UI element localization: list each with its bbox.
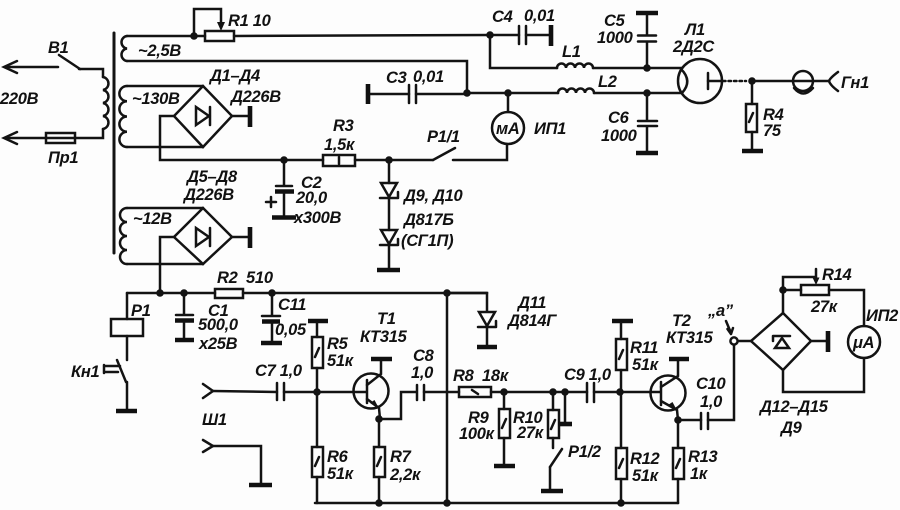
meter IP1 — [492, 93, 524, 144]
pushbutton Kn1 — [104, 360, 127, 410]
ground R9 — [494, 464, 515, 469]
wire winding130 top to bridge — [127, 85, 203, 88]
svg-text:1000: 1000 — [601, 127, 638, 145]
node junction feedback bottom — [443, 499, 451, 507]
node junction T1 emitter — [375, 415, 383, 423]
svg-text:Д817Б: Д817Б — [402, 211, 454, 229]
svg-text:0,01: 0,01 — [413, 68, 444, 86]
svg-text:Т1: Т1 — [377, 310, 396, 328]
resistor R11 — [616, 323, 627, 392]
capacitor C1 — [175, 293, 194, 338]
transformer primary winding — [103, 77, 108, 129]
svg-text:С11: С11 — [278, 296, 306, 314]
wire bridge3 top to R14 junction — [782, 290, 785, 313]
ground P1/2 — [541, 489, 563, 494]
node junction stub top — [561, 388, 569, 396]
svg-text:~12В: ~12В — [133, 210, 172, 228]
winding 12V — [120, 208, 127, 264]
node junction C6 top — [643, 89, 651, 97]
capacitor C7 — [277, 383, 284, 400]
svg-text:Д5–Д8: Д5–Д8 — [185, 168, 238, 186]
svg-text:R6: R6 — [327, 448, 349, 466]
svg-text:1к: 1к — [690, 465, 709, 483]
node junction C2 top — [280, 156, 288, 164]
wire R3 to P1/1 — [355, 159, 433, 162]
wire R8 to C9 — [491, 391, 587, 394]
wire winding12 top to bridge2 — [127, 207, 203, 210]
terminal bar T2 collector — [669, 357, 689, 362]
svg-text:R11: R11 — [630, 339, 658, 357]
ground C11 — [261, 341, 282, 346]
svg-text:2,2к: 2,2к — [389, 466, 422, 484]
zener D10 — [380, 199, 398, 268]
zener D9 — [380, 160, 398, 198]
diode bridge D12-D15 — [751, 313, 811, 370]
capacitor C9 — [587, 383, 594, 402]
ground C2 — [272, 215, 296, 220]
svg-text:Д12–Д15: Д12–Д15 — [758, 398, 829, 416]
svg-text:Д9, Д10: Д9, Д10 — [402, 187, 464, 205]
wire bridge2 left to bus293 — [160, 237, 174, 293]
svg-text:С6: С6 — [608, 109, 630, 127]
capacitor C3 terminal bar — [366, 84, 371, 104]
node junction L2 wire left — [463, 89, 471, 97]
svg-text:С3: С3 — [386, 69, 407, 87]
terminal bar R5 top — [308, 319, 328, 324]
node junction meter IP1 top — [504, 89, 512, 97]
wire C10 to node a — [708, 345, 734, 420]
svg-text:μА: μА — [852, 334, 874, 352]
inductor L1 — [557, 64, 593, 68]
wire node a to bridge3 — [738, 340, 751, 343]
svg-text:ИП1: ИП1 — [534, 120, 566, 138]
inductor L2 — [558, 89, 594, 94]
svg-text:С10: С10 — [696, 375, 726, 393]
svg-text:2Д2С: 2Д2С — [672, 38, 715, 56]
svg-text:27к: 27к — [810, 298, 839, 316]
svg-text:„а”: „а” — [707, 302, 734, 320]
terminal bar C6 bottom — [636, 151, 658, 156]
node junction R12 bottom — [617, 499, 625, 507]
wire bus to zener D11 — [447, 293, 487, 311]
node junction R9 top — [500, 388, 508, 396]
switch P1/1 blade — [433, 148, 455, 160]
svg-text:Д226В: Д226В — [229, 88, 281, 106]
node junction R1 left — [190, 32, 198, 40]
svg-text:Ш1: Ш1 — [202, 411, 227, 429]
node junction R14 left — [779, 286, 787, 294]
wire emitter to C10 — [678, 419, 701, 422]
terminal bar T1 collector — [371, 357, 392, 362]
transistor T1 — [354, 361, 389, 419]
svg-text:27к: 27к — [516, 424, 545, 442]
terminal bar bridge2 right — [232, 227, 250, 248]
wire bus293 left segment — [127, 292, 215, 295]
resistor R9 — [499, 392, 510, 464]
svg-text:51к: 51к — [632, 356, 660, 374]
svg-text:51к: 51к — [327, 352, 355, 370]
wire C7 to base junction — [284, 391, 317, 394]
svg-text:х25В: х25В — [198, 335, 238, 353]
connector Sh1 lower fork — [203, 440, 213, 452]
ground Sh1 — [249, 483, 272, 488]
svg-text:ИП2: ИП2 — [866, 307, 898, 325]
zener D11 — [478, 312, 496, 345]
resistor R8 — [459, 387, 491, 397]
svg-text:51к: 51к — [327, 465, 355, 483]
resistor R13 — [673, 420, 684, 503]
svg-text:C9 1,0: C9 1,0 — [564, 366, 612, 384]
node a circle — [730, 337, 737, 344]
resistor R5 — [312, 323, 323, 392]
svg-text:Л1: Л1 — [684, 21, 705, 39]
terminal stub near C9 — [564, 392, 567, 422]
svg-text:C7 1,0: C7 1,0 — [255, 362, 303, 380]
svg-text:R1 10: R1 10 — [228, 12, 272, 30]
resistor R10 — [548, 392, 559, 448]
wire winding12 bottom to bridge2 — [127, 263, 203, 266]
svg-text:R12: R12 — [630, 450, 659, 468]
wire R14 to meter IP2 — [829, 290, 864, 326]
wire winding2.5 top to R1 — [127, 35, 205, 38]
svg-text:1000: 1000 — [597, 29, 634, 47]
node junction T1 base — [313, 388, 321, 396]
node junction C11 top — [268, 289, 276, 297]
wire winding2.5 bottom long — [127, 61, 467, 93]
node junction R4 top — [748, 77, 756, 85]
svg-text:R7: R7 — [390, 448, 412, 466]
node junction feedback vertical top — [443, 289, 451, 297]
wire switch to transformer primary — [79, 69, 103, 77]
ground D9 D10 — [377, 268, 400, 273]
wire R4 junction to jack — [752, 80, 829, 83]
wire bridge1 left to bus160 — [160, 116, 323, 160]
wire base junction to T2 — [620, 391, 660, 394]
wire R1 to C4 junction — [234, 35, 490, 36]
switch P1/2 — [550, 449, 562, 489]
terminal bar stub — [558, 422, 572, 427]
terminal bar bridge1 right — [232, 106, 250, 127]
resistor R14 rheostat — [783, 269, 829, 295]
svg-text:C8: C8 — [413, 347, 435, 365]
mains arrow top — [4, 61, 58, 73]
svg-text:L2: L2 — [598, 73, 617, 91]
svg-text:0,05: 0,05 — [275, 321, 307, 339]
connector Sh1 upper fork — [203, 384, 213, 398]
mains arrow bottom — [4, 132, 46, 144]
svg-text:Гн1: Гн1 — [841, 74, 869, 92]
svg-text:L1: L1 — [562, 43, 581, 61]
resistor R6 — [312, 392, 323, 503]
svg-text:х300В: х300В — [293, 209, 342, 227]
wire emitter to C8 — [379, 392, 416, 419]
jack Gn1 circle — [793, 71, 813, 94]
terminal bar bridge3 right — [811, 331, 828, 352]
svg-text:Пр1: Пр1 — [48, 149, 78, 167]
svg-text:Т2: Т2 — [672, 312, 691, 330]
svg-text:КТ315: КТ315 — [666, 329, 714, 347]
capacitor C2 — [266, 160, 294, 215]
wire Sh1 to C7 — [213, 391, 277, 392]
resistor R2 — [215, 289, 243, 298]
capacitor C5 — [638, 15, 656, 68]
svg-text:Р1: Р1 — [131, 302, 151, 320]
svg-text:Р1/2: Р1/2 — [568, 443, 601, 461]
feedback vertical wire — [446, 293, 449, 503]
svg-text:КТ315: КТ315 — [360, 328, 408, 346]
svg-text:~130В: ~130В — [132, 90, 180, 108]
terminal bar C4 right — [549, 25, 554, 46]
vacuum tube L1 2D2S — [678, 59, 746, 103]
svg-text:100к: 100к — [459, 425, 496, 443]
plug fork Gn1 — [829, 72, 838, 91]
node junction zener top — [385, 156, 393, 164]
winding 2.5V — [121, 36, 127, 61]
node junction bridge2 bus — [156, 289, 164, 297]
node junction R7 bottom — [375, 499, 383, 507]
wire winding130 bottom to bridge — [127, 146, 203, 149]
wire meter IP2 to bridge3 bottom — [783, 358, 864, 392]
svg-text:1,5к: 1,5к — [324, 136, 356, 154]
ground C1 — [175, 338, 194, 343]
wire Sh1 lower to ground — [213, 446, 261, 483]
capacitor C6 — [638, 93, 657, 151]
svg-text:С5: С5 — [604, 12, 626, 30]
resistor R3 — [323, 155, 355, 166]
resistor R12 — [616, 392, 627, 503]
svg-text:Д9: Д9 — [779, 419, 803, 437]
wire C8 to R8 — [424, 391, 459, 394]
node junction T2 emitter — [674, 416, 682, 424]
svg-text:R2 510: R2 510 — [217, 269, 274, 287]
svg-text:R5: R5 — [327, 335, 349, 353]
capacitor C10 — [701, 413, 708, 429]
terminal bar C5 top — [636, 11, 658, 16]
svg-text:0,01: 0,01 — [524, 7, 555, 25]
node a arrow — [726, 321, 733, 334]
ground Kn1 — [116, 409, 137, 414]
relay P1 coil — [111, 293, 143, 360]
svg-text:В1: В1 — [48, 39, 69, 57]
wire fuse to primary — [75, 129, 103, 138]
node junction T2 base — [616, 388, 624, 396]
svg-text:Р1/1: Р1/1 — [427, 128, 460, 146]
node junction C4 left — [486, 31, 494, 39]
wire L2 to tube — [594, 92, 681, 95]
ground R4 — [742, 149, 763, 154]
resistor R4 — [746, 81, 757, 150]
wire L2 row left — [467, 92, 558, 95]
terminal bar R11 top — [612, 319, 633, 324]
meter IP2 — [848, 326, 880, 358]
resistor R1 rheostat — [194, 9, 234, 41]
transistor T2 — [651, 361, 686, 420]
svg-text:51к: 51к — [632, 467, 660, 485]
capacitor C11 — [262, 293, 280, 341]
capacitor C8 — [417, 385, 424, 400]
svg-text:Д226В: Д226В — [182, 186, 234, 204]
svg-text:1,0: 1,0 — [411, 364, 434, 382]
svg-text:1,0: 1,0 — [700, 393, 723, 411]
transformer core — [113, 33, 116, 253]
svg-text:Кн1: Кн1 — [71, 363, 100, 381]
switch B1 blade — [59, 55, 80, 69]
capacitor C4 — [490, 26, 549, 44]
diode bridge D5-D8 — [174, 208, 232, 264]
svg-text:~2,5В: ~2,5В — [138, 42, 181, 60]
svg-text:220В: 220В — [0, 90, 39, 108]
svg-text:С4: С4 — [492, 8, 513, 26]
resistor R7 — [374, 419, 385, 503]
svg-text:мА: мА — [496, 120, 520, 138]
svg-text:Д11: Д11 — [516, 294, 546, 312]
svg-text:R14: R14 — [822, 266, 851, 284]
node junction C5 bottom — [643, 64, 651, 72]
wire base junction to T1 — [317, 391, 366, 394]
svg-text:(СГ1П): (СГ1П) — [401, 232, 454, 250]
svg-text:Д814Г: Д814Г — [506, 312, 557, 330]
fuse Pr1 — [46, 133, 75, 143]
svg-text:R13: R13 — [688, 448, 717, 466]
node junction R10 top — [549, 388, 557, 396]
svg-text:75: 75 — [763, 122, 782, 140]
node junction C1 top — [180, 289, 188, 297]
svg-text:Д1–Д4: Д1–Д4 — [208, 67, 260, 85]
svg-text:20,0: 20,0 — [295, 189, 328, 207]
svg-text:R8 18к: R8 18к — [453, 367, 510, 385]
wire C4 junction down to L1 row — [490, 35, 557, 68]
svg-text:500,0: 500,0 — [198, 316, 239, 334]
bottom bus wire — [315, 502, 678, 505]
wire C9 to T2 base junction — [594, 391, 620, 394]
ground D11 — [477, 345, 497, 350]
winding 130V — [119, 86, 127, 147]
svg-text:R3: R3 — [333, 117, 354, 135]
diode bridge D1-D4 — [174, 86, 232, 147]
wire R2 to D11 corner — [243, 292, 487, 295]
wire L1 to tube — [593, 67, 682, 70]
capacitor C3 — [370, 85, 467, 103]
wire P1/1 to meter IP1 — [453, 144, 507, 160]
